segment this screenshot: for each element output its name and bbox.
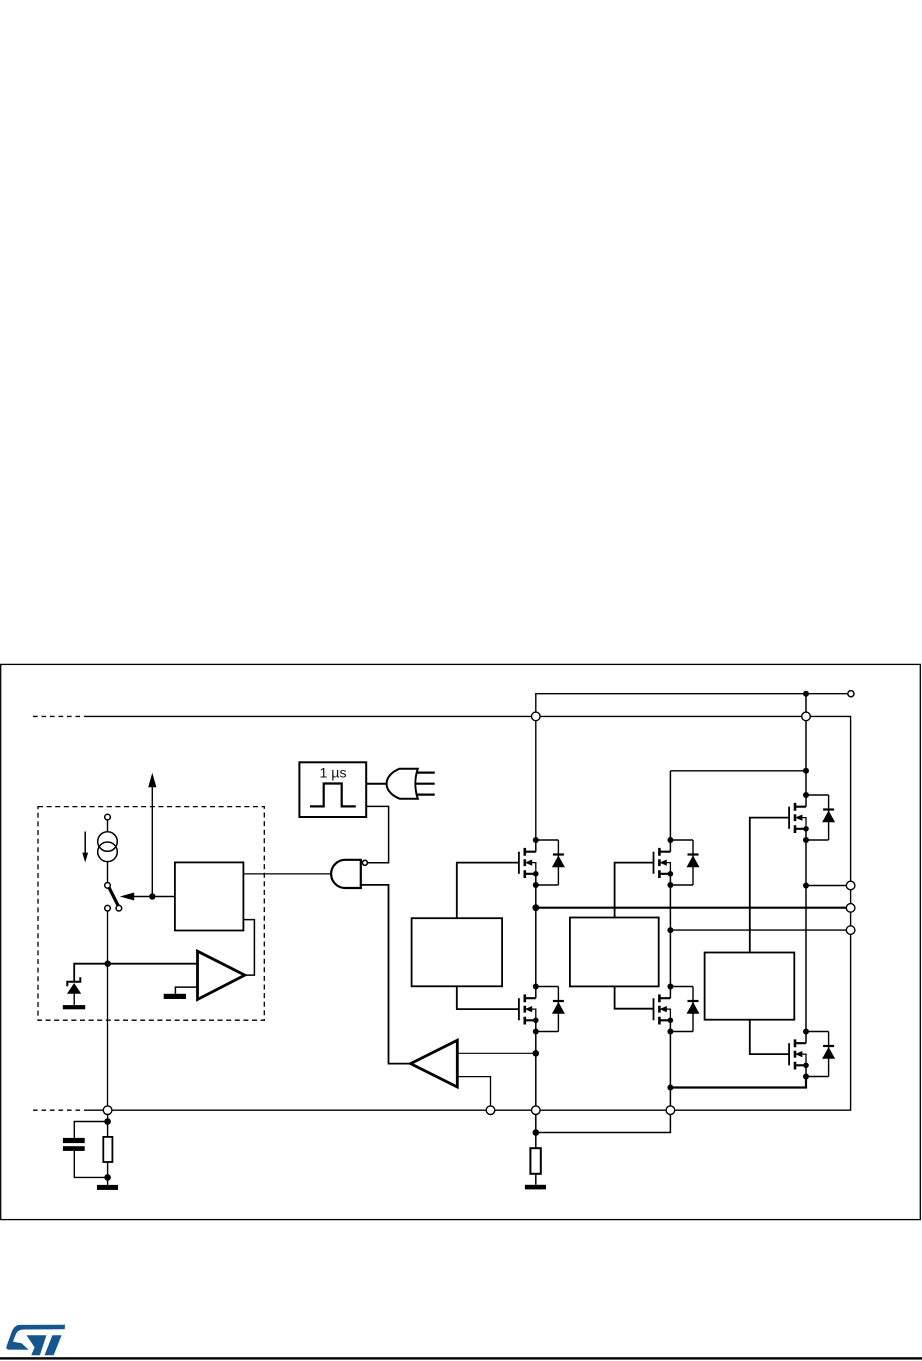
wire gate Q2 <box>615 863 654 918</box>
wire IC boundary bottom (dashed left part) <box>33 1109 86 1111</box>
wire VS feed to half-bridge 2 <box>670 770 806 772</box>
svg-text:1 µs: 1 µs <box>319 766 346 782</box>
node junction buffer input <box>533 1050 540 1057</box>
wire col1 phase rail <box>535 885 537 987</box>
wire comparator input 2 to ground <box>175 987 197 994</box>
wire buffer to sense pin <box>457 1077 490 1106</box>
block U1 gate driver 1 <box>412 918 503 986</box>
switch S1 blade <box>109 887 119 907</box>
node junction OUT2 <box>532 904 539 911</box>
gate G1 inversion bubble <box>362 860 367 865</box>
node junction control <box>149 893 155 899</box>
figure frame <box>1 664 921 1219</box>
wire below sense pin <box>107 1115 109 1185</box>
wire gate Q3 <box>750 818 789 953</box>
node junction sense line <box>105 961 111 967</box>
terminal current source top <box>105 814 111 820</box>
node junction ls3 return <box>667 1085 673 1091</box>
pin OUT1 <box>846 881 855 890</box>
resistor R1 <box>103 1137 112 1162</box>
ground RC <box>97 1185 118 1190</box>
wire switch control arrow <box>134 896 175 898</box>
pin sense feedback <box>486 1106 495 1115</box>
fan-out driver symbol <box>387 769 418 799</box>
capacitor C1 plates <box>63 1138 85 1143</box>
wire gate Q6 <box>750 1020 789 1054</box>
dashed box current sense section <box>38 807 264 1021</box>
pin sense left <box>103 1106 112 1115</box>
wire OUT line 2 (heavy) <box>536 907 851 909</box>
wire block U4 to comparator A1 <box>243 920 254 976</box>
wire gate Q5 <box>615 986 654 1008</box>
node junction sense <box>533 1129 540 1136</box>
wire up-arrow output <box>151 787 153 897</box>
wire pulse box to fan-out <box>366 783 388 785</box>
wire ls3 source return (heavy) <box>670 1077 806 1088</box>
wire capacitor branch top <box>74 1122 107 1138</box>
wire IC boundary top (dashed left part) <box>33 715 86 717</box>
wire NAND to level shifter <box>361 885 411 1064</box>
wire pulse box to NAND bubble <box>366 806 388 862</box>
switch S1 contacts <box>105 883 111 889</box>
ground reference comparator <box>164 994 186 999</box>
ground sense resistor <box>525 1185 546 1190</box>
node junction VS rail col3 <box>803 768 809 774</box>
pin source 2 <box>666 1106 675 1115</box>
block U4 sense control <box>175 862 244 930</box>
transistor Q3 high-side half-bridge 3 <box>789 792 835 843</box>
wire gate Q4 <box>457 986 519 1009</box>
current source I1 <box>98 832 118 852</box>
wire current source top <box>107 820 109 832</box>
ground zener <box>63 1005 85 1009</box>
pin OUT3 <box>846 926 855 935</box>
wire sense resistor to ground <box>535 1174 537 1185</box>
terminal VBOOT (open circle) <box>848 691 854 697</box>
wire control block to NAND <box>243 873 331 875</box>
wire capacitor branch bottom <box>74 1151 107 1178</box>
block U3 gate driver 3 <box>705 953 795 1020</box>
gate G1 NAND (mirrored) <box>331 860 361 888</box>
ST logo <box>6 1325 65 1355</box>
pulse waveform <box>310 784 356 807</box>
node junction OUT1 <box>803 883 809 889</box>
wire col2 phase rail <box>669 885 671 987</box>
transistor Q4 low-side half-bridge 1 <box>519 984 565 1035</box>
node junction RC bottom <box>104 1174 111 1181</box>
wire OUT line 3 <box>670 929 850 931</box>
resistor R2 sense <box>530 1148 540 1174</box>
pin source 1 <box>532 1106 541 1115</box>
wire switch to bottom pin <box>107 911 109 1106</box>
buffer A2 (left-pointing) <box>411 1040 458 1087</box>
pin VS2 <box>802 712 811 721</box>
wire IC boundary top + right edge + bottom <box>86 716 851 1110</box>
transistor Q6 low-side half-bridge 3 <box>789 1029 835 1080</box>
transistor Q1 high-side half-bridge 1 <box>519 837 565 888</box>
pin OUT2 <box>846 904 855 913</box>
comparator A1 <box>198 951 245 999</box>
pin VS1 <box>532 712 541 721</box>
wire gate Q1 <box>457 863 519 919</box>
footer rule <box>0 1357 922 1359</box>
node junction on top supply line <box>803 691 809 697</box>
wire col2 upper rail <box>669 771 671 840</box>
pulse generator 1us box <box>299 762 366 817</box>
wire comparator input 1 <box>74 964 197 982</box>
wire zener to ground <box>73 994 75 1005</box>
transistor Q5 low-side half-bridge 2 <box>654 984 700 1035</box>
block U2 gate driver 2 <box>570 918 659 987</box>
zener diode D1 <box>67 977 80 986</box>
wire current source to switch <box>107 862 109 883</box>
wire col1 lower rail to sense node <box>535 1032 537 1149</box>
node junction OUT3 <box>667 927 673 933</box>
wire col3 rail hs3 source to ls3 drain <box>805 840 807 1032</box>
wire OUT line 1 <box>806 885 851 887</box>
wire buffer input from col1 <box>457 1052 536 1054</box>
transistor Q2 high-side half-bridge 2 <box>654 837 700 888</box>
wire col3 upper rail <box>805 694 807 795</box>
wire col2 lower rail to sense node <box>536 1032 671 1133</box>
node junction RC top <box>104 1118 111 1125</box>
current direction arrow <box>84 832 86 854</box>
fan-out prongs <box>415 773 435 795</box>
wire top supply line to bootstrap terminal <box>536 694 848 840</box>
